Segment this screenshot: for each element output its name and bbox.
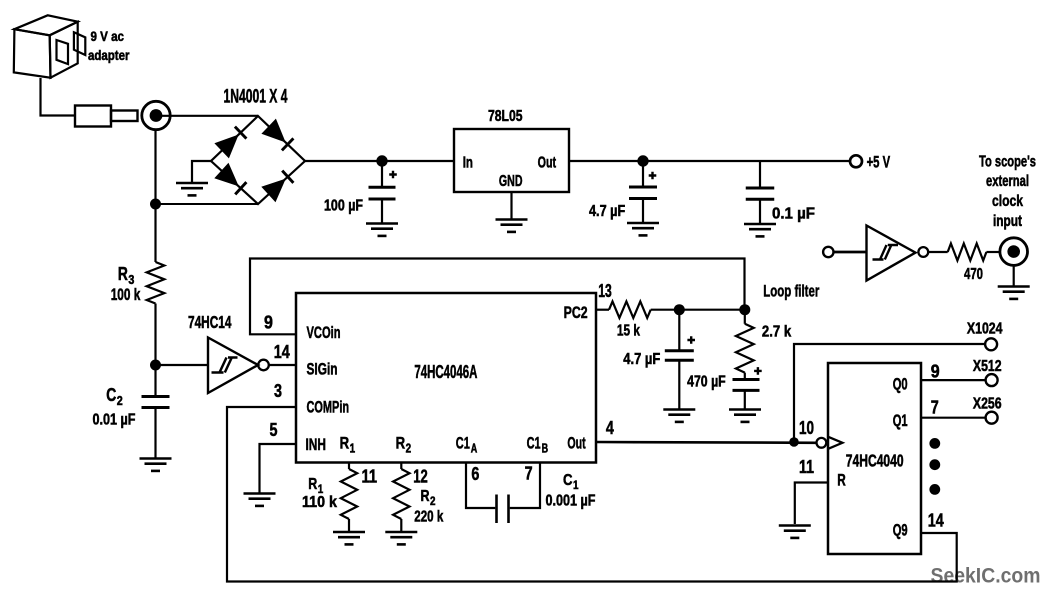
pin label R1 inside — [340, 434, 356, 456]
clock wedge inside 74HC4040 — [828, 437, 842, 449]
svg-text:220 k: 220 k — [414, 509, 443, 526]
capacitor 0.1 uF — [746, 161, 775, 224]
svg-text:R: R — [396, 434, 406, 453]
svg-text:SeekIC.com: SeekIC.com — [931, 563, 1041, 587]
svg-text:1: 1 — [573, 478, 579, 492]
svg-text:74HC4046A: 74HC4046A — [414, 361, 477, 382]
svg-text:110 k: 110 k — [302, 494, 337, 511]
wire jack to bridge top — [158, 115, 258, 117]
capacitor C1 0.001uF (horizontal) — [497, 495, 509, 524]
ground under loop 4.7uF — [663, 410, 695, 422]
wire pin9 VCOin — [250, 259, 745, 335]
svg-text:13: 13 — [598, 280, 612, 301]
svg-text:R: R — [340, 434, 350, 453]
resistor R1 110k (vertical) — [341, 469, 357, 519]
svg-text:100 k: 100 k — [111, 286, 141, 304]
svg-text:2: 2 — [117, 393, 123, 408]
diode D1 (left-top edge) — [214, 127, 246, 159]
output bubble of 74HC14 — [258, 360, 269, 371]
wire R3 to node — [154, 304, 156, 366]
wire connector shell to ground — [1013, 266, 1015, 287]
ground at scope connector — [998, 287, 1030, 299]
svg-text:74HC4040: 74HC4040 — [846, 450, 904, 470]
svg-text:4: 4 — [606, 417, 615, 438]
svg-text:3: 3 — [274, 380, 282, 401]
svg-text:2.7 k: 2.7 k — [762, 323, 792, 340]
svg-text:1N4001 X 4: 1N4001 X 4 — [224, 86, 288, 107]
junction node at C-4.7uF — [637, 155, 648, 166]
capacitor 4.7 uF + (loop filter) — [665, 310, 694, 409]
svg-text:4.7 µF: 4.7 µF — [589, 203, 625, 220]
wire pin11 to R1 — [348, 463, 350, 470]
svg-text:12: 12 — [413, 466, 428, 487]
svg-text:VCOin: VCOin — [307, 323, 341, 342]
ellipsis dots for Q2-Q8 — [929, 438, 940, 495]
svg-text:14: 14 — [928, 509, 945, 530]
wire Q1 to X256 — [921, 417, 986, 419]
svg-text:4.7 µF: 4.7 µF — [623, 351, 660, 368]
wire regulator GND pin — [510, 192, 512, 219]
DC jack J1 — [142, 101, 170, 129]
resistor R3 (vertical) — [147, 262, 165, 304]
svg-text:X512: X512 — [973, 358, 1002, 375]
wire pin4 Out — [596, 441, 817, 444]
wire pin3 COMPin feedback — [227, 407, 957, 582]
svg-text:R: R — [308, 476, 317, 493]
ground under regulator — [496, 220, 528, 232]
terminal X512 — [986, 374, 998, 386]
svg-text:Loop filter: Loop filter — [763, 282, 819, 301]
svg-text:11: 11 — [362, 466, 378, 487]
bridge rectifier 1N4001 X 4 - diamond — [211, 116, 305, 204]
svg-text:100 µF: 100 µF — [324, 198, 363, 215]
wire 15k to loop filter node — [651, 309, 745, 311]
label C2 0.01 uF — [93, 385, 136, 429]
svg-text:7: 7 — [931, 397, 939, 418]
svg-text:A: A — [471, 442, 478, 456]
svg-text:X1024: X1024 — [967, 321, 1003, 338]
label R2 220 k — [414, 488, 443, 526]
resistor R2 220k (vertical) — [393, 469, 409, 519]
terminal input of scope buffer — [823, 247, 833, 257]
svg-text:C1: C1 — [527, 434, 541, 453]
wire R2 to ground — [400, 519, 402, 532]
ground at INH — [244, 494, 276, 506]
label R1 110 k — [302, 476, 337, 511]
resistor 470 (horizontal) — [948, 244, 987, 261]
svg-text:C1: C1 — [456, 434, 470, 453]
svg-text:6: 6 — [471, 463, 479, 484]
svg-text:7: 7 — [525, 463, 533, 484]
svg-text:15 k: 15 k — [617, 323, 640, 340]
wire node to R3 — [154, 204, 156, 262]
ground under 470uF — [729, 410, 761, 422]
barrel plug — [75, 106, 138, 127]
svg-text:input: input — [993, 213, 1022, 230]
wire pin12 to R2 — [400, 463, 402, 470]
svg-text:9: 9 — [931, 361, 940, 382]
terminal X1024 — [985, 338, 997, 350]
svg-text:Out: Out — [567, 434, 586, 453]
junction node pin10 / X1024 — [789, 437, 799, 447]
diode D4 (bottom-right edge) — [261, 171, 293, 203]
wire bridge bottom corner to node — [156, 203, 259, 205]
svg-text:1: 1 — [350, 442, 356, 456]
svg-text:C: C — [563, 472, 573, 489]
svg-text:2: 2 — [430, 494, 436, 508]
svg-text:11: 11 — [799, 456, 814, 477]
label C1 0.001 uF — [546, 472, 596, 510]
svg-text:14: 14 — [274, 341, 291, 362]
svg-text:R: R — [118, 264, 128, 284]
wire node to 74HC14 input — [156, 364, 209, 366]
output bubble of scope buffer — [918, 247, 928, 257]
svg-text:external: external — [986, 173, 1029, 190]
wire adapter cord to plug — [41, 78, 75, 116]
ground under 100uF — [366, 224, 398, 236]
inverter U1 74HC14 triangle — [208, 338, 258, 394]
resistor 15 k (horizontal) — [609, 302, 651, 318]
wire pin6 to C1 — [466, 463, 495, 509]
wire jack sleeve down to node — [154, 130, 156, 204]
junction node loop filter / VCOin — [739, 304, 750, 315]
svg-text:3: 3 — [128, 272, 134, 287]
svg-text:0.1 µF: 0.1 µF — [772, 206, 815, 223]
svg-text:0.001 µF: 0.001 µF — [546, 493, 596, 510]
IC U5 74HC4040 box — [828, 363, 921, 554]
svg-text:74HC14: 74HC14 — [188, 312, 232, 332]
plus sign of 470uF — [754, 367, 762, 375]
junction node 4.7uF tap — [674, 304, 685, 315]
junction node R3/C2/inverter input — [150, 360, 161, 371]
label To scopes external clock input — [979, 154, 1036, 231]
svg-text:X256: X256 — [973, 396, 1002, 413]
wire pin13 PC2 to loop filter — [596, 309, 609, 311]
label 9 V ac adapter — [88, 29, 130, 63]
junction node jack/bridge-bottom/R3 — [150, 199, 161, 210]
svg-text:+5 V: +5 V — [867, 153, 891, 172]
plus sign of 4.7uF — [649, 172, 657, 180]
voltage regulator U2 78L05 box — [454, 129, 569, 192]
svg-text:clock: clock — [992, 193, 1023, 210]
capacitor C2 — [142, 365, 170, 458]
svg-text:R: R — [837, 471, 846, 490]
wire bridge + output to regulator — [305, 160, 454, 162]
svg-text:In: In — [463, 154, 473, 171]
svg-text:Q0: Q0 — [893, 375, 908, 394]
resistor 2.7 k (vertical) — [736, 310, 754, 373]
label R3 — [111, 264, 141, 304]
plus sign of loop 4.7uF — [687, 336, 695, 344]
pin label R2 inside — [396, 434, 412, 456]
svg-text:SIGin: SIGin — [307, 359, 338, 378]
ground under 4.7uF — [627, 223, 659, 235]
svg-text:78L05: 78L05 — [488, 108, 523, 125]
svg-text:R: R — [421, 488, 430, 505]
wire bridge negative to ground — [192, 161, 211, 183]
wire pin11 R to ground — [795, 483, 828, 525]
schmitt buffer U3 74HC14 triangle — [867, 226, 916, 281]
capacitor 4.7 uF + — [629, 161, 657, 222]
IC U4 74HC4046A box — [296, 293, 596, 463]
plus sign of 100uF — [389, 171, 397, 179]
wire Q0 to X512 — [921, 379, 986, 381]
svg-text:To scope's: To scope's — [979, 154, 1036, 171]
wire node up to X1024 — [794, 344, 985, 442]
svg-text:Q1: Q1 — [893, 411, 908, 430]
svg-text:9 V ac: 9 V ac — [91, 29, 125, 44]
wire to buffer — [834, 251, 867, 254]
ground at bridge — [176, 183, 208, 195]
svg-text:9: 9 — [264, 312, 273, 333]
svg-text:PC2: PC2 — [564, 303, 588, 322]
svg-text:2: 2 — [406, 442, 412, 456]
wire R1 to ground — [348, 519, 350, 532]
ground under R1 — [333, 532, 365, 544]
pin label C1A inside — [456, 434, 478, 456]
wire pin5 INH to ground — [260, 444, 297, 493]
ground under C2 — [140, 459, 172, 471]
diode D3 (left-bottom edge) — [214, 163, 246, 195]
pin label C1B inside — [527, 434, 549, 456]
ground under R2 — [385, 532, 417, 544]
svg-text:GND: GND — [499, 173, 523, 190]
svg-text:INH: INH — [306, 435, 326, 454]
connector to scope (phono jack) — [1000, 238, 1028, 266]
wire C1 to pin7 — [510, 463, 540, 509]
wire buffer to R-470 — [928, 251, 948, 253]
svg-text:Q9: Q9 — [893, 521, 908, 540]
ground at 4040 reset — [779, 526, 811, 538]
svg-text:COMPin: COMPin — [307, 398, 350, 417]
svg-text:C: C — [106, 385, 116, 405]
svg-text:B: B — [542, 442, 549, 456]
terminal X256 — [986, 412, 998, 424]
svg-text:10: 10 — [799, 417, 814, 438]
svg-text:470: 470 — [964, 266, 983, 283]
svg-text:adapter: adapter — [88, 48, 130, 63]
clock input bubble of 74HC4040 — [817, 438, 827, 448]
wire R-470 to connector — [986, 251, 1000, 253]
terminal +5 V — [850, 155, 862, 167]
capacitor 470 uF + — [733, 373, 760, 409]
svg-text:470 µF: 470 µF — [687, 374, 726, 391]
wire 74HC14 output to SIGin — [269, 364, 296, 366]
diode D2 (top-right edge) — [261, 119, 293, 151]
svg-text:Out: Out — [538, 154, 557, 171]
svg-text:0.01 µF: 0.01 µF — [93, 412, 136, 429]
AC wall adapter (9 V ac) 3-D box — [14, 15, 86, 77]
capacitor 100 uF + — [369, 161, 396, 223]
svg-text:5: 5 — [270, 419, 278, 440]
junction node at C-100uF — [376, 155, 387, 166]
ground under 0.1uF — [744, 224, 776, 236]
wire regulator output +5V rail — [569, 160, 850, 162]
